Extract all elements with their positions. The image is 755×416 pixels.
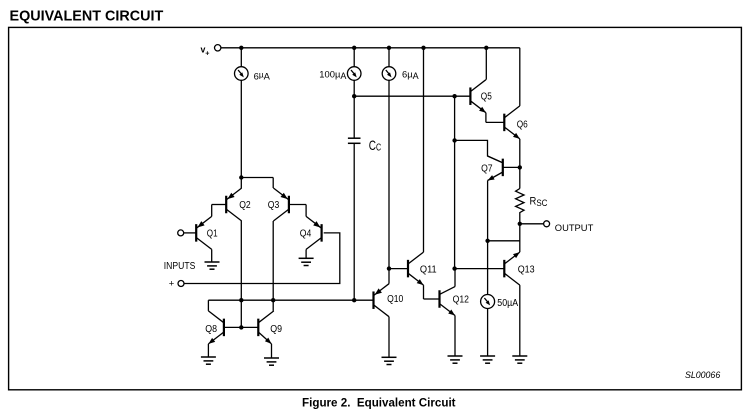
svg-text:+: +	[169, 278, 175, 289]
svg-text:SL00066: SL00066	[685, 370, 720, 380]
svg-text:Figure 2. Equivalent Circuit: Figure 2. Equivalent Circuit	[302, 396, 456, 409]
svg-text:RSC: RSC	[530, 196, 548, 209]
svg-text:Q1: Q1	[207, 229, 218, 240]
svg-text:6µA: 6µA	[402, 69, 419, 81]
svg-text:OUTPUT: OUTPUT	[555, 222, 594, 233]
svg-text:Q7: Q7	[481, 163, 493, 174]
svg-text:EQUIVALENT CIRCUIT: EQUIVALENT CIRCUIT	[10, 9, 164, 25]
svg-text:100µA: 100µA	[319, 69, 346, 81]
svg-text:Q3: Q3	[268, 200, 280, 211]
svg-text:Q13: Q13	[518, 264, 535, 275]
svg-text:Q9: Q9	[270, 324, 282, 335]
svg-text:Q5: Q5	[481, 91, 492, 102]
svg-text:Q6: Q6	[517, 120, 528, 131]
svg-text:Q12: Q12	[453, 295, 470, 306]
svg-text:+: +	[205, 49, 209, 58]
svg-text:Q2: Q2	[239, 200, 251, 211]
svg-text:50µA: 50µA	[497, 298, 518, 309]
svg-text:Q11: Q11	[420, 264, 437, 275]
svg-text:Q8: Q8	[205, 324, 217, 335]
svg-text:Q4: Q4	[300, 229, 312, 240]
svg-text:INPUTS: INPUTS	[164, 261, 196, 272]
svg-text:Q10: Q10	[387, 294, 404, 305]
